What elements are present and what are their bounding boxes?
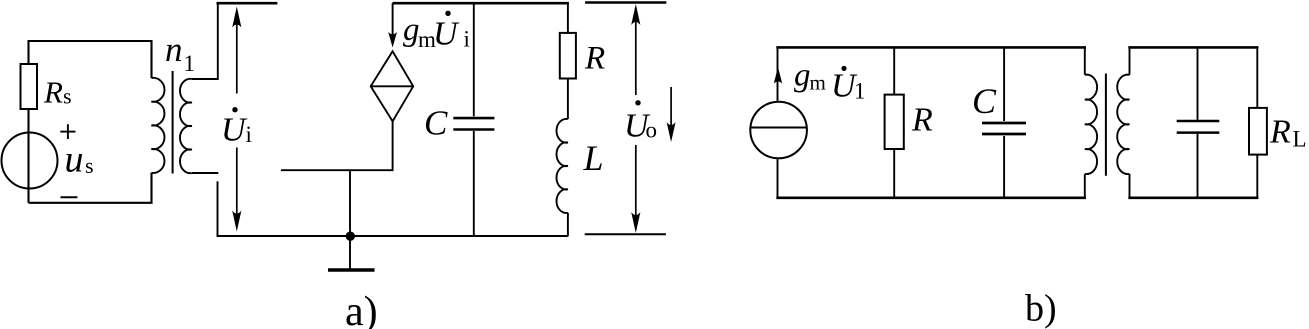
transformer T2 secondary winding bbox=[1117, 75, 1129, 174]
svg-text:m: m bbox=[810, 71, 826, 95]
wire left rect rails bbox=[776, 47, 1086, 197]
label Uo bbox=[624, 100, 657, 144]
controlled source U1 (diamond) bbox=[371, 51, 414, 121]
label R bbox=[584, 40, 605, 76]
svg-text:n: n bbox=[165, 30, 183, 69]
svg-text:R: R bbox=[911, 102, 933, 139]
svg-text:R: R bbox=[1269, 114, 1291, 151]
label Rs bbox=[43, 74, 72, 109]
label R (b) bbox=[911, 102, 933, 139]
svg-text:1: 1 bbox=[854, 79, 866, 104]
resistor R (b) bbox=[885, 95, 904, 149]
wire Uo top rail bbox=[585, 1, 666, 4]
ground bbox=[328, 268, 375, 272]
label n1 bbox=[165, 30, 195, 76]
wire ground branch bbox=[349, 170, 351, 269]
wire right rect rails bbox=[1128, 47, 1258, 197]
label L bbox=[583, 138, 604, 178]
resistor RL bbox=[1249, 108, 1267, 155]
svg-text:C: C bbox=[424, 104, 448, 143]
svg-text:a): a) bbox=[345, 289, 378, 329]
arrow Ui measure (double-headed) bbox=[232, 7, 241, 232]
resistor Rs bbox=[21, 64, 38, 109]
wire secondary bottom lead bbox=[192, 172, 218, 174]
label C (b) bbox=[972, 81, 997, 121]
svg-text:U: U bbox=[221, 111, 248, 148]
capacitor C branch wires bbox=[473, 3, 475, 236]
wire bottom rail bbox=[217, 235, 569, 237]
label C bbox=[424, 104, 448, 143]
svg-text:s: s bbox=[85, 153, 94, 178]
resistor R bbox=[560, 33, 576, 79]
capacitor C plates (b) bbox=[982, 123, 1026, 134]
transformer T2 core bbox=[1105, 74, 1107, 176]
label us bbox=[65, 139, 94, 181]
inductor L bbox=[556, 119, 567, 213]
svg-text:i: i bbox=[464, 27, 470, 52]
arrow on source wire (up) bbox=[774, 67, 782, 84]
label plus bbox=[60, 124, 75, 139]
transformer T1 core bbox=[172, 71, 174, 174]
svg-text:C: C bbox=[972, 81, 997, 121]
wire below diamond bbox=[281, 121, 393, 170]
svg-text:R: R bbox=[43, 74, 63, 109]
capacitor plates (b right) bbox=[1177, 121, 1220, 133]
wire left rect side walls bbox=[778, 47, 1085, 197]
arrow Uo direction (short down) bbox=[667, 87, 676, 142]
label Ui bbox=[221, 107, 252, 148]
voltage source us (circle) bbox=[2, 133, 58, 189]
wire right rect side walls bbox=[1130, 47, 1258, 197]
wire port lower-left vertical bbox=[217, 181, 219, 236]
svg-text:1: 1 bbox=[184, 51, 196, 76]
wire + arrow into controlled source bbox=[388, 3, 397, 47]
svg-text:b): b) bbox=[1025, 288, 1057, 329]
arrow Uo measure (double-headed) bbox=[631, 4, 640, 233]
resistor R branch (b) wires bbox=[893, 47, 895, 197]
wire left loop bbox=[29, 41, 152, 203]
svg-text:L: L bbox=[1293, 127, 1307, 152]
wire secondary top lead bbox=[192, 4, 218, 79]
svg-text:u: u bbox=[65, 139, 84, 181]
wire tank top rail bbox=[393, 2, 569, 5]
capacitor branch (b right) wires bbox=[1197, 47, 1199, 197]
capacitor C branch (b) wires bbox=[1003, 47, 1005, 197]
svg-text:R: R bbox=[584, 40, 605, 76]
svg-text:o: o bbox=[646, 118, 658, 143]
transformer T1 primary winding bbox=[151, 78, 164, 173]
svg-text:i: i bbox=[246, 122, 252, 147]
label a) bbox=[345, 289, 378, 329]
label RL bbox=[1269, 114, 1307, 152]
junction dot bbox=[346, 232, 355, 241]
label b) bbox=[1025, 288, 1057, 329]
label gmU1 bbox=[794, 58, 866, 105]
svg-text:g: g bbox=[794, 58, 811, 94]
svg-text:L: L bbox=[583, 138, 604, 178]
svg-text:s: s bbox=[63, 84, 72, 109]
current source gmU1 (circle with bar) bbox=[750, 102, 807, 159]
label minus bbox=[61, 196, 78, 198]
resistor R branch wire bbox=[567, 3, 569, 236]
svg-text:U: U bbox=[433, 16, 460, 53]
label gmUi bbox=[403, 11, 470, 53]
transformer T2 primary winding bbox=[1085, 75, 1097, 174]
capacitor C plates bbox=[453, 118, 494, 129]
transformer T1 secondary winding bbox=[180, 79, 192, 173]
wire Uo bottom rail bbox=[585, 233, 666, 235]
wire input port top rail bbox=[217, 2, 278, 5]
